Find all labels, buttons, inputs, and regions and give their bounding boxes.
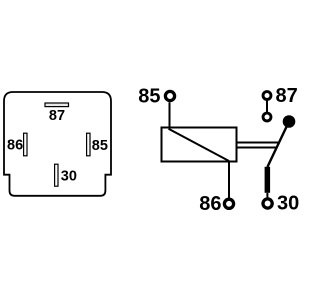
- switch arm: [267, 122, 289, 168]
- pin 86 blade (vertical): [24, 133, 27, 156]
- actuator link line upper: [237, 142, 280, 144]
- terminal 85: [165, 91, 174, 100]
- terminal 30: [263, 199, 272, 208]
- coil diagonal: [169, 129, 230, 161]
- svg-text:87: 87: [276, 85, 298, 107]
- svg-text:85: 85: [92, 138, 108, 154]
- svg-text:87: 87: [49, 108, 65, 124]
- svg-text:30: 30: [61, 168, 77, 184]
- svg-text:86: 86: [199, 193, 221, 215]
- coil U1 (rectangle): [162, 128, 237, 162]
- pin 30 blade (vertical): [55, 164, 58, 186]
- relay socket outline (bottom view): [4, 92, 111, 196]
- terminal 87: [263, 92, 271, 100]
- svg-text:86: 86: [7, 138, 23, 154]
- svg-text:85: 85: [138, 86, 160, 108]
- wire coil to 86: [228, 162, 230, 199]
- actuator link line lower: [237, 147, 277, 149]
- contact bar (thick) to 30: [265, 167, 271, 193]
- pin 85 blade (vertical): [87, 133, 90, 156]
- fixed contact 87: [263, 113, 271, 121]
- wire 85 to coil: [169, 102, 171, 128]
- terminal 86: [224, 199, 233, 208]
- pin 87 blade (horizontal): [45, 103, 69, 107]
- movable contact dot: [283, 115, 296, 128]
- wire bar to 30: [266, 193, 268, 198]
- wire 87 contact link: [266, 100, 268, 112]
- svg-text:30: 30: [277, 193, 299, 215]
